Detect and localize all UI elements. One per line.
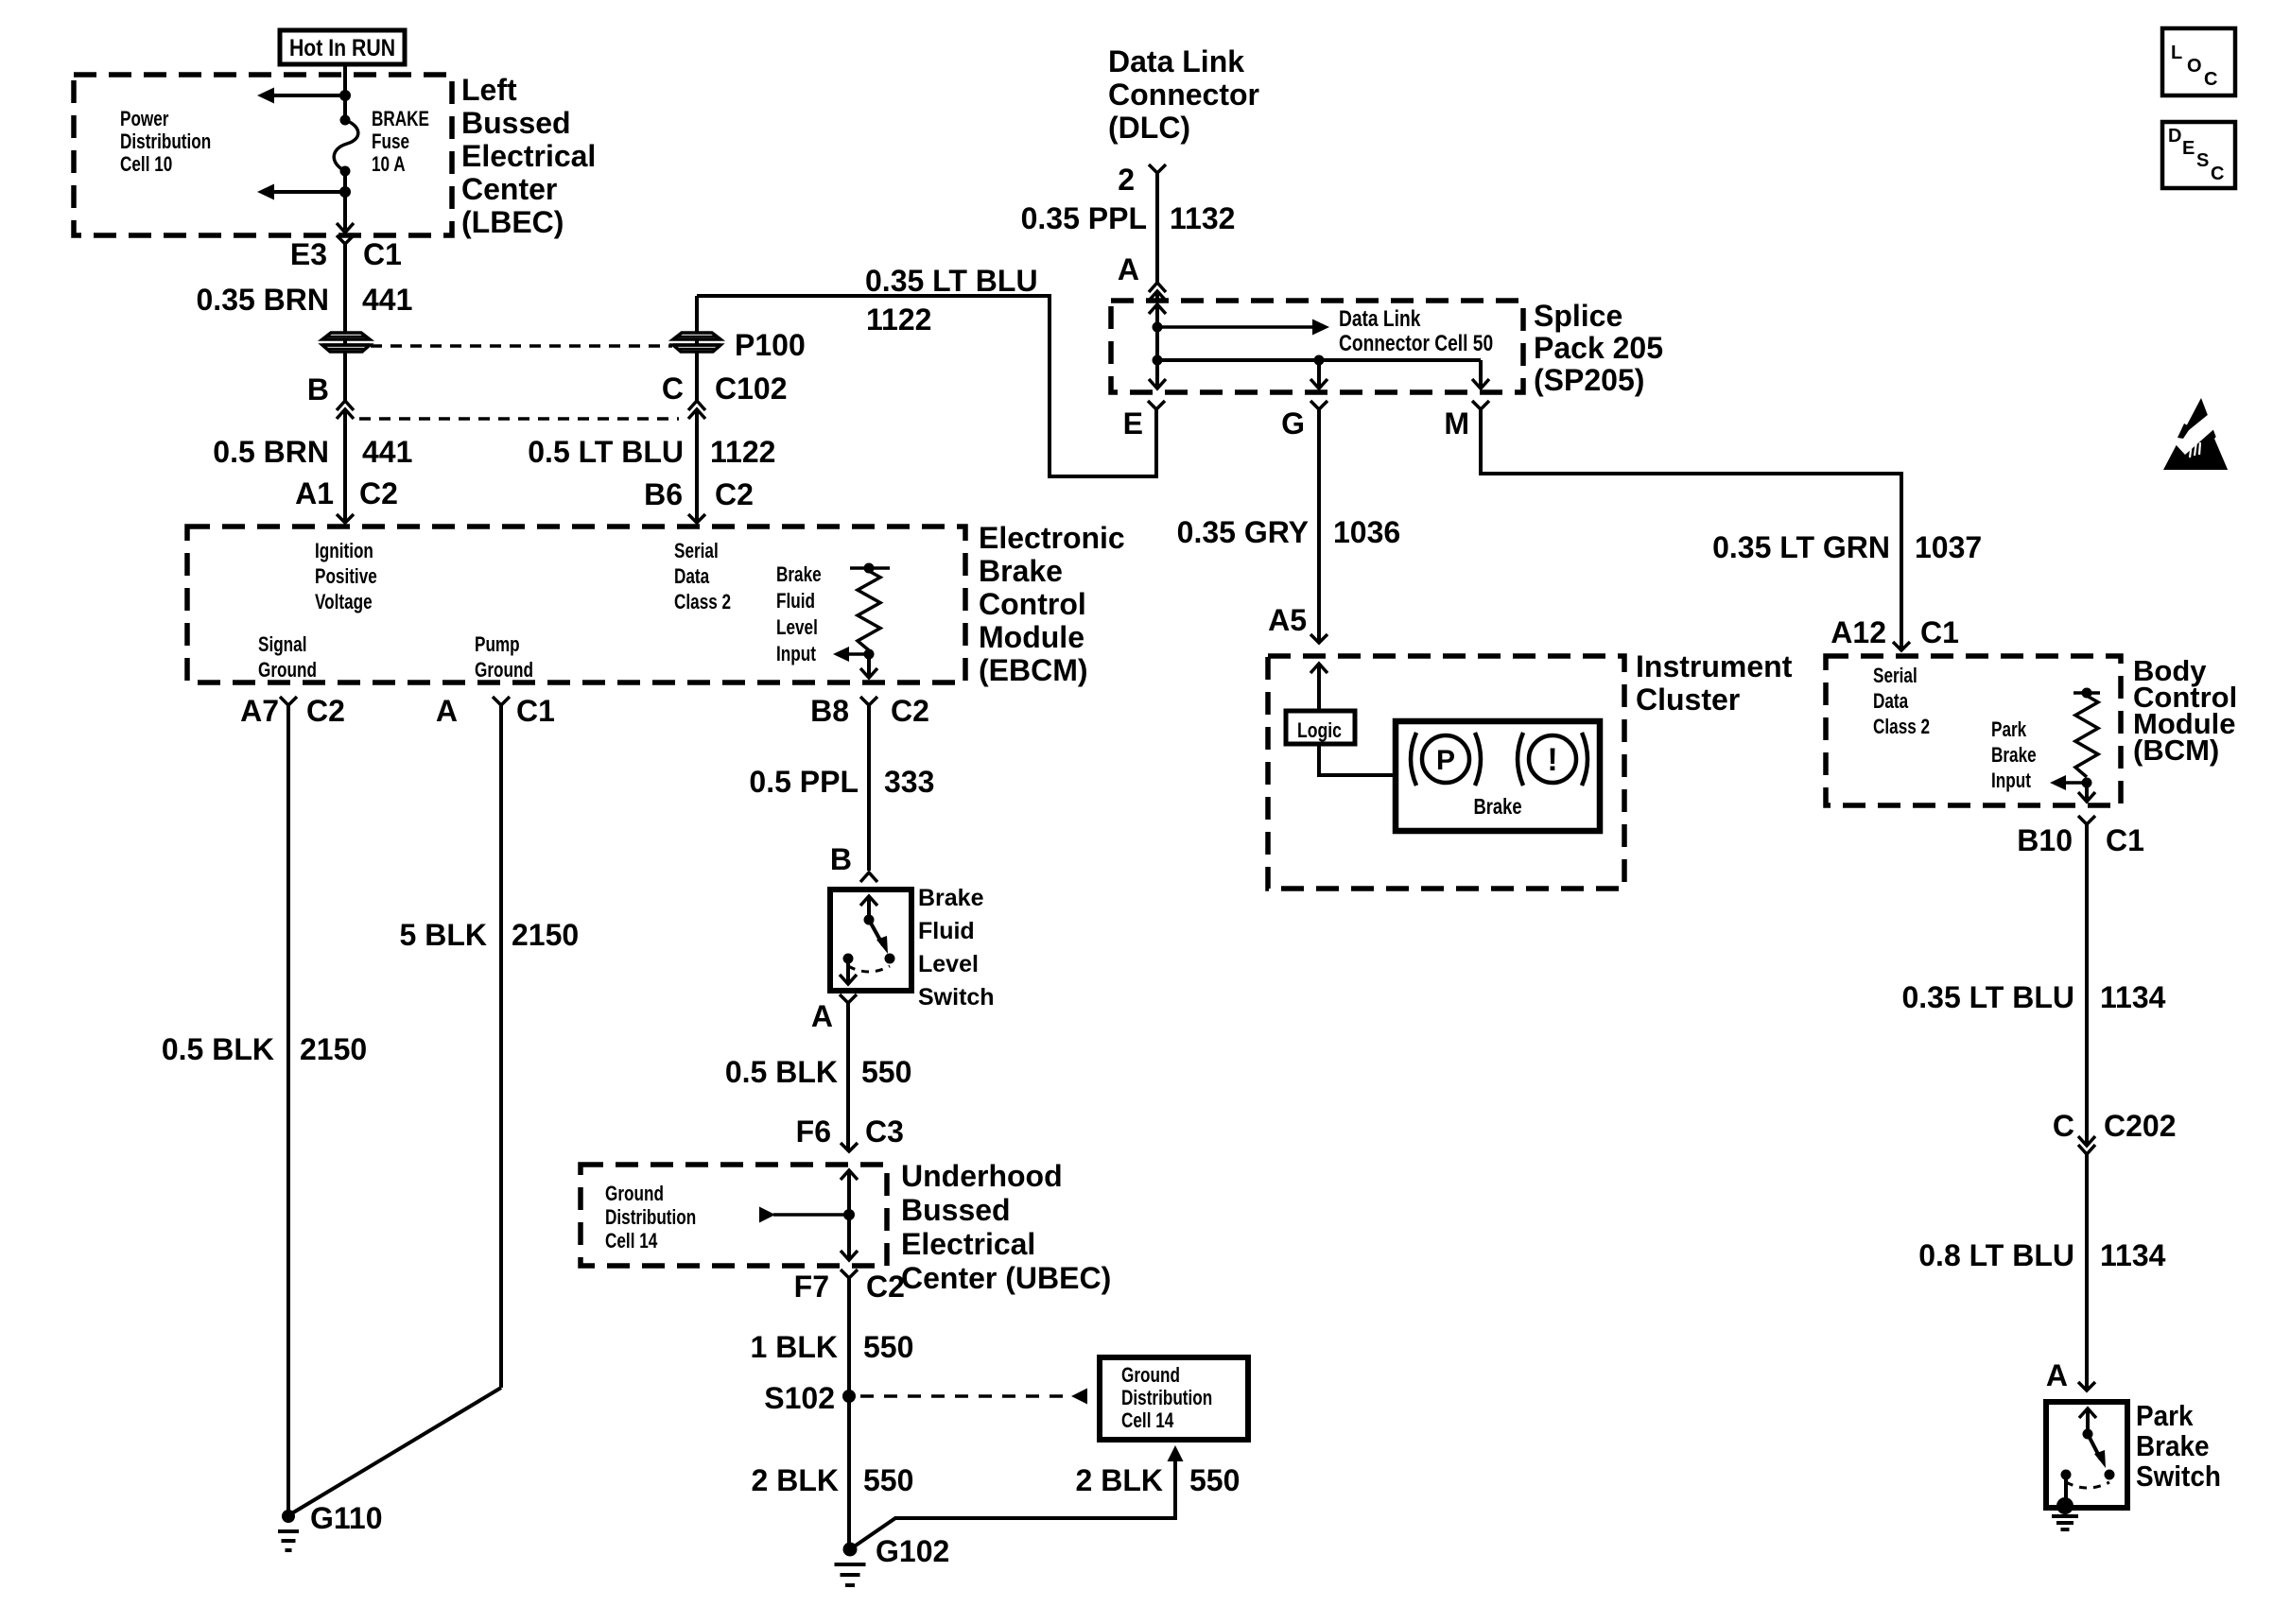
svg-text:C: C (2204, 69, 2217, 90)
svg-text:L: L (2171, 43, 2182, 63)
svg-text:Fluid: Fluid (776, 590, 815, 613)
svg-text:2 BLK: 2 BLK (752, 1463, 839, 1497)
svg-text:0.5 BLK: 0.5 BLK (162, 1032, 274, 1066)
svg-text:Instrument: Instrument (1636, 649, 1793, 683)
svg-text:550: 550 (863, 1463, 913, 1497)
svg-text:Connector: Connector (1108, 78, 1259, 112)
svg-text:D: D (2168, 126, 2181, 147)
svg-text:Ground: Ground (605, 1183, 664, 1206)
svg-text:2150: 2150 (512, 918, 579, 952)
svg-text:C3: C3 (865, 1114, 904, 1149)
svg-text:C2: C2 (306, 694, 345, 728)
svg-text:A: A (436, 694, 458, 728)
svg-text:B10: B10 (2017, 823, 2073, 857)
svg-text:G102: G102 (876, 1534, 949, 1568)
svg-text:Switch: Switch (918, 984, 995, 1011)
svg-text:Serial: Serial (1873, 665, 1917, 688)
svg-text:Ignition: Ignition (315, 540, 373, 563)
svg-text:Class 2: Class 2 (674, 591, 731, 614)
svg-text:1122: 1122 (866, 302, 931, 337)
svg-text:(EBCM): (EBCM) (979, 653, 1088, 687)
svg-text:Data Link: Data Link (1108, 44, 1244, 78)
svg-text:P: P (1436, 745, 1455, 776)
svg-text:Logic: Logic (1297, 719, 1342, 742)
svg-text:Brake: Brake (1991, 744, 2037, 768)
svg-text:2150: 2150 (300, 1032, 367, 1066)
svg-text:C: C (2053, 1109, 2074, 1143)
svg-text:B6: B6 (644, 477, 683, 511)
svg-text:P100: P100 (735, 328, 806, 362)
svg-text:(DLC): (DLC) (1108, 111, 1190, 145)
svg-text:Brake: Brake (918, 885, 984, 911)
svg-text:0.5 BRN: 0.5 BRN (213, 435, 329, 469)
svg-text:Brake: Brake (979, 554, 1063, 588)
svg-text:BRAKE: BRAKE (372, 108, 429, 131)
svg-text:C1: C1 (363, 237, 402, 271)
svg-text:Electrical: Electrical (461, 139, 596, 173)
svg-text:Data Link: Data Link (1339, 305, 1421, 332)
svg-text:Distribution: Distribution (605, 1206, 696, 1230)
svg-text:Input: Input (1991, 769, 2031, 793)
svg-text:Bussed: Bussed (901, 1193, 1011, 1227)
svg-text:550: 550 (861, 1055, 911, 1089)
svg-text:Brake: Brake (2136, 1430, 2210, 1463)
svg-text:Center: Center (461, 172, 557, 206)
svg-text:C1: C1 (1920, 615, 1959, 649)
svg-text:Cell 14: Cell 14 (605, 1230, 657, 1253)
svg-text:A: A (1118, 252, 1139, 286)
svg-text:Pump: Pump (475, 633, 520, 657)
svg-text:Signal: Signal (258, 633, 306, 657)
svg-text:(BCM): (BCM) (2133, 734, 2219, 767)
svg-text:Connector Cell 50: Connector Cell 50 (1339, 330, 1493, 356)
svg-text:333: 333 (884, 765, 934, 799)
svg-text:0.5 LT BLU: 0.5 LT BLU (528, 435, 684, 469)
svg-text:Serial: Serial (674, 540, 719, 563)
svg-text:Fluid: Fluid (918, 918, 975, 944)
svg-text:Data: Data (1873, 690, 1909, 714)
svg-text:(SP205): (SP205) (1534, 363, 1644, 397)
svg-text:Left: Left (461, 73, 517, 107)
svg-text:Cell 10: Cell 10 (120, 153, 172, 177)
svg-text:A1: A1 (295, 476, 334, 510)
svg-text:C: C (662, 371, 684, 406)
svg-text:Electrical: Electrical (901, 1227, 1035, 1261)
svg-text:Park: Park (1991, 718, 2026, 742)
svg-text:C: C (2211, 164, 2224, 184)
svg-text:Positive: Positive (315, 565, 377, 589)
svg-text:550: 550 (863, 1330, 913, 1364)
svg-text:!: ! (1547, 742, 1557, 778)
svg-text:A7: A7 (240, 694, 279, 728)
svg-text:Splice: Splice (1534, 299, 1622, 333)
svg-text:Voltage: Voltage (315, 591, 373, 614)
svg-text:Brake: Brake (776, 563, 822, 587)
svg-text:(LBEC): (LBEC) (461, 205, 564, 239)
svg-text:Cluster: Cluster (1636, 682, 1740, 717)
svg-text:Distribution: Distribution (120, 130, 211, 154)
svg-text:O: O (2187, 56, 2202, 77)
svg-text:G: G (1281, 406, 1305, 441)
svg-text:2: 2 (1118, 163, 1135, 197)
svg-text:Ground: Ground (258, 659, 317, 682)
svg-text:G110: G110 (310, 1501, 383, 1535)
svg-text:2 BLK: 2 BLK (1076, 1463, 1163, 1497)
svg-text:0.35 LT BLU: 0.35 LT BLU (1901, 980, 2074, 1014)
svg-text:1122: 1122 (710, 435, 775, 469)
svg-text:B: B (307, 372, 329, 406)
svg-text:5 BLK: 5 BLK (400, 918, 487, 952)
svg-text:1134: 1134 (2100, 980, 2166, 1014)
svg-text:S: S (2196, 150, 2209, 171)
svg-text:0.35 PPL: 0.35 PPL (1021, 201, 1147, 235)
svg-text:0.35 LT GRN: 0.35 LT GRN (1712, 530, 1890, 564)
svg-text:0.8 LT BLU: 0.8 LT BLU (1918, 1238, 2074, 1272)
svg-text:A5: A5 (1268, 603, 1307, 637)
svg-text:1037: 1037 (1915, 530, 1982, 564)
svg-text:Level: Level (776, 616, 818, 640)
svg-text:C102: C102 (715, 371, 788, 406)
svg-text:0.35 BRN: 0.35 BRN (197, 283, 330, 317)
svg-text:Input: Input (776, 643, 816, 666)
svg-text:0.35 LT BLU: 0.35 LT BLU (865, 264, 1038, 298)
svg-text:Brake: Brake (1473, 795, 1521, 819)
svg-text:Fuse: Fuse (372, 130, 409, 154)
svg-text:Electronic: Electronic (979, 521, 1125, 555)
svg-text:C1: C1 (2106, 823, 2144, 857)
svg-text:Center (UBEC): Center (UBEC) (901, 1261, 1111, 1295)
svg-text:Underhood: Underhood (901, 1159, 1063, 1193)
svg-text:550: 550 (1189, 1463, 1240, 1497)
svg-text:C2: C2 (891, 694, 929, 728)
svg-text:B8: B8 (810, 694, 849, 728)
svg-text:S102: S102 (764, 1381, 835, 1415)
svg-text:Data: Data (674, 565, 710, 589)
svg-text:1132: 1132 (1170, 201, 1235, 235)
svg-text:E: E (1123, 406, 1143, 441)
svg-text:A: A (811, 999, 833, 1033)
svg-text:Park: Park (2136, 1400, 2194, 1433)
svg-text:A: A (2046, 1358, 2068, 1392)
svg-text:C2: C2 (866, 1270, 905, 1304)
svg-text:Level: Level (918, 951, 979, 977)
svg-text:Pack 205: Pack 205 (1534, 331, 1663, 365)
svg-text:Control: Control (979, 587, 1086, 621)
svg-text:Ground: Ground (1121, 1364, 1180, 1388)
svg-text:1 BLK: 1 BLK (751, 1330, 838, 1364)
svg-text:Ground: Ground (475, 659, 533, 682)
svg-text:C1: C1 (516, 694, 555, 728)
svg-text:E: E (2182, 138, 2195, 159)
svg-text:C2: C2 (715, 477, 754, 511)
svg-text:F6: F6 (796, 1114, 831, 1149)
svg-text:441: 441 (362, 283, 412, 317)
svg-text:0.5 BLK: 0.5 BLK (725, 1055, 838, 1089)
svg-text:A12: A12 (1831, 615, 1886, 649)
svg-text:C2: C2 (359, 476, 398, 510)
svg-text:B: B (830, 842, 852, 876)
svg-text:Hot In RUN: Hot In RUN (289, 34, 395, 60)
svg-text:C202: C202 (2104, 1109, 2177, 1143)
svg-text:0.35 GRY: 0.35 GRY (1177, 515, 1309, 549)
svg-text:E3: E3 (290, 237, 327, 271)
svg-text:F7: F7 (794, 1270, 829, 1304)
svg-text:Switch: Switch (2136, 1460, 2221, 1494)
svg-text:441: 441 (362, 435, 412, 469)
svg-text:M: M (1444, 406, 1469, 441)
svg-text:Distribution: Distribution (1121, 1387, 1212, 1410)
svg-text:Class 2: Class 2 (1873, 716, 1930, 739)
svg-text:Bussed: Bussed (461, 106, 571, 140)
svg-text:Cell 14: Cell 14 (1121, 1409, 1173, 1433)
svg-text:10 A: 10 A (372, 153, 406, 177)
svg-text:1134: 1134 (2100, 1238, 2166, 1272)
svg-text:Power: Power (120, 108, 169, 131)
svg-text:0.5 PPL: 0.5 PPL (749, 765, 859, 799)
svg-text:1036: 1036 (1333, 515, 1400, 549)
svg-text:Module: Module (979, 620, 1084, 654)
